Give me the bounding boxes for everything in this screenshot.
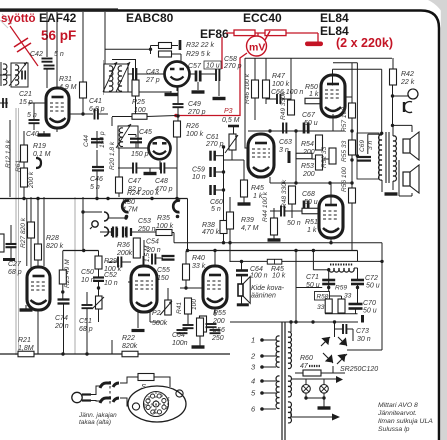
junction x296 top [294,249,297,252]
capacitor C65b [210,330,221,333]
svg-text:C70: C70 [363,300,376,307]
svg-text:2: 2 [152,409,156,415]
junction choke left [327,268,330,271]
svg-text:1: 1 [167,397,170,403]
label R60 [300,355,313,362]
tube EL84 upper [321,75,345,117]
junction OT top [380,132,383,135]
wire C48 right [165,167,178,169]
wire C74 down [63,304,65,354]
label R49 [280,91,287,120]
label R26 [186,123,199,130]
junction bus197 c [95,197,98,200]
junction bridge feed [311,320,314,323]
wire C42 down [46,69,48,88]
wire psu bottoms [325,313,358,315]
junction det [149,48,152,51]
wire R26 down [176,137,178,197]
junction psu [380,260,383,263]
wire pot down [98,309,100,322]
wire det cath [176,86,178,91]
red ground bar [305,42,323,47]
svg-text:(2 x 220k): (2 x 220k) [336,36,393,50]
wire bridge top [334,322,336,337]
label SR250C120 [340,366,378,373]
socket pin number 2 [152,409,156,415]
wire C73 corner [352,329,354,341]
tube ECC40 [248,134,274,177]
wire R46 up [254,58,256,80]
coil T3 [119,128,123,147]
junction h131 a [268,129,271,132]
wire psu left link [296,287,322,289]
label C49 [188,101,201,108]
label C27 value [8,269,22,276]
svg-text:68 p: 68 p [79,326,93,333]
label EL84 second [320,24,349,38]
switch contact upper [100,383,119,388]
svg-text:C48: C48 [155,178,168,185]
R60 hatch [309,365,321,367]
junction y250 d [213,249,216,252]
ground R44 [268,238,281,241]
junction bus197 f [175,197,178,200]
resistor R23 [59,270,66,284]
label R38 value [202,229,220,236]
junction bottom rail b [85,352,88,355]
junction bottom rail [61,352,64,355]
tube EAF42 [46,88,69,128]
svg-text:R27 820 k: R27 820 k [20,217,27,248]
boxed label 10u [204,61,221,69]
wire C54 right [156,257,164,259]
label P2 [152,310,161,317]
label C58 [224,56,237,63]
label C53 [138,218,151,225]
wire PT terminal 3 [262,366,276,368]
switch link dashed [109,381,111,404]
wire C47 left [118,167,133,169]
potentiometer tone [92,296,104,309]
wire y250 left corner [98,251,100,257]
junction lamp2 [322,396,325,399]
OT core [386,132,389,183]
label R27 [20,217,27,248]
bridge diode 3 [338,337,347,346]
wire P1 vert [142,256,144,266]
coil T2 secondary [118,66,122,91]
wire caps col right3 [215,189,224,191]
label R45 value [253,193,263,200]
wire C66 right [281,98,292,100]
red wire mV tap [257,33,259,36]
label P2 value [152,320,168,327]
svg-text:820k: 820k [122,343,138,350]
wire R31 bottom [82,98,84,114]
svg-text:10 n: 10 n [104,280,118,287]
wire jack [393,95,409,97]
IF transformer T3 box [118,126,138,148]
svg-text:C59: C59 [192,167,205,174]
svg-text:4,7 M: 4,7 M [241,225,259,232]
svg-text:6,8 p: 6,8 p [89,106,105,113]
label R12 [5,139,12,168]
svg-text:ECC40: ECC40 [243,11,282,25]
wire PT terminal 6 [262,408,276,410]
label R50 value [309,91,319,98]
C69 box [357,133,379,179]
resistor R26 [174,121,181,137]
junction bus197 e [150,197,153,200]
wire R51 right [319,210,321,212]
label PT terminal 2 [250,352,256,361]
label EL84 first [320,11,349,25]
label C73 value [357,336,371,343]
resistor R56 [349,188,356,203]
svg-text:C73: C73 [356,328,369,335]
tube EF86 [131,266,157,312]
wire lamp1 up [305,379,307,385]
wire EAF42 plate out [69,113,93,115]
label R47 value [272,81,290,88]
svg-text:EL84: EL84 [320,11,349,25]
label C57 value [206,63,220,70]
capacitor bar top [179,40,182,50]
wire C57-C58 [200,73,216,75]
svg-text:Ilman sulkuja ULA: Ilman sulkuja ULA [378,418,433,425]
label C52 value [104,280,118,287]
label R61 value [28,171,35,189]
label R45b value [272,273,286,280]
svg-text:50 u: 50 u [363,308,377,315]
bridge diode 2 [323,353,333,363]
label C60 value [211,206,221,213]
wire C65 r [285,210,303,212]
red label 56 pF [41,28,76,43]
svg-text:Mittari AVO 8: Mittari AVO 8 [378,402,418,409]
PT core [282,322,285,440]
svg-text:0,1 M: 0,1 M [33,151,51,158]
svg-text:R60: R60 [300,355,313,362]
resistor R29 [159,51,172,57]
wire R23 down [62,284,64,299]
capacitor C40 [29,120,40,123]
wire R39 down [229,229,231,243]
arrowhead lamp rail [336,376,343,383]
junction bridge top [333,320,336,323]
label R28 value [46,243,64,250]
wire EL84u cath [332,114,334,131]
red mV text [249,42,265,54]
svg-text:47: 47 [300,363,309,370]
capacitor C41 [95,109,98,120]
mains plug [72,392,91,402]
capacitor C62 [183,325,194,328]
phone jack lower [404,102,412,113]
wire lamp2 dn [323,393,325,398]
wire R49 up [290,58,292,100]
ground C58 [213,97,226,100]
svg-text:5 n: 5 n [90,184,100,191]
wire R25 left [112,116,132,118]
ground EAF42 cathode [38,133,51,136]
red wire top measurement rail [226,32,318,34]
resistor R25 [132,114,147,120]
capacitor C42b [44,66,55,69]
wire R27 down [30,238,32,268]
coil clip right dot [176,215,180,219]
wire det left vert [150,46,152,55]
label C48 value [155,186,173,193]
pot P2 arrow [160,301,172,315]
ground lamps [318,406,331,409]
potentiometer P2 [165,300,172,315]
wire PT terminal 1 [262,339,276,341]
wire C46 col [96,150,98,166]
tube output driver [203,266,227,308]
wire psu left vert [295,251,297,323]
capacitor C66 [277,94,280,104]
wire R38 down [223,234,225,243]
svg-text:2: 2 [250,352,256,361]
svg-text:200k: 200k [116,250,133,257]
ground C27 [3,258,15,261]
wire P3 dn [231,150,233,160]
wire caps col right [215,155,224,157]
resistor left edge [0,234,4,252]
svg-text:50 u: 50 u [366,283,380,290]
wire caps col right2 [215,171,224,173]
choke core hatch [330,264,353,266]
label R55 [341,140,348,162]
potentiometer P3 [225,134,238,153]
capacitor C67 [304,123,308,134]
junction osc r [124,216,127,219]
red label syotto [1,13,36,25]
svg-text:C53: C53 [138,218,151,225]
terminal dot 3 [260,365,264,369]
svg-text:C54: C54 [146,239,159,246]
ground R45 [238,202,251,205]
wire gnd stub triode [149,168,151,173]
wire bridge feed [230,321,358,323]
wire R46 down [254,98,256,120]
svg-text:C58: C58 [224,56,237,63]
coil clip left [122,201,129,213]
capacitor C68 [304,201,308,212]
svg-text:syöttö: syöttö [1,13,36,25]
label C74 value [54,323,69,330]
capacitor C45 [130,139,142,143]
arrow T3 [116,124,131,148]
svg-text:820 k: 820 k [46,243,64,250]
label C47 value [128,186,142,193]
label C55 [157,267,170,274]
capacitor C61 [211,151,215,161]
resistor R28 [35,244,42,260]
wire lamps gnd [323,398,325,407]
wire C57 down [197,82,199,90]
wire P3 up [233,127,235,134]
svg-text:R48 330k: R48 330k [281,179,288,208]
capacitor C46 [92,167,104,170]
svg-text:takaa (alta): takaa (alta) [79,419,111,426]
label R35 [157,215,170,222]
resistor R61 [21,168,28,187]
label C56 [212,327,225,334]
wire PT terminal 4 [262,380,276,382]
capacitor C58 [216,69,219,81]
junction col a [350,129,353,132]
wire antenna core [0,62,2,86]
label R42 [401,71,414,78]
wire left col [9,120,11,197]
svg-text:R45: R45 [251,185,264,192]
wire R29b down [98,269,100,277]
label C44 [83,135,90,147]
capacitor C50 body [93,278,104,281]
wire spk low v [411,193,413,196]
label R61 [15,160,22,172]
label C41 [89,98,102,105]
label R56 [341,167,348,192]
svg-text:R59: R59 [335,285,347,292]
wire ps h350 [347,349,382,351]
ground driver [192,345,205,348]
label R24 [127,190,159,197]
resistor R54 [316,135,323,150]
wire PT bottom arrow [291,416,332,418]
oscillator coil arcs [104,212,109,236]
svg-text:4: 4 [251,377,255,386]
label C64 value [250,273,268,280]
wire grid vert left [26,199,28,266]
svg-text:100 k: 100 k [272,81,290,88]
wire R40 down [185,280,187,288]
label R36b [117,242,130,249]
svg-text:50 u: 50 u [304,199,318,206]
junction y250 c [186,249,189,252]
svg-text:R56 100: R56 100 [341,167,348,192]
svg-text:R19: R19 [33,143,46,150]
label C27 [8,261,22,268]
label C73 [356,328,369,335]
wire OT sec bot [392,181,394,190]
resistor R45 two-segment [267,259,282,264]
svg-text:R29 5 k: R29 5 k [186,51,211,58]
wire OT sec top [392,125,394,136]
bridge diode 4 [337,354,347,364]
svg-text:R40: R40 [192,255,205,262]
label C70 [363,300,376,307]
wire R58 bot [328,312,330,315]
terminal dot 6 [260,407,264,411]
wire R40 up [185,251,187,264]
dial lamp 1 [302,385,311,394]
bus wire y250 left [63,250,99,252]
junction R39 y242 [228,241,231,244]
label PT terminal 1 [251,336,255,345]
terminal dot 2 [260,354,264,358]
svg-text:EABC80: EABC80 [126,11,174,25]
label jann line2 [79,419,111,426]
red junction dot [174,114,178,118]
svg-text:500k: 500k [152,320,168,327]
junction choke feed [312,249,315,252]
svg-text:33 k: 33 k [192,263,206,270]
socket ear left [132,403,139,410]
tube EABC80 output triode [27,267,50,310]
svg-text:R51: R51 [305,219,318,226]
wire r51b [312,158,329,160]
wire plate det down [177,87,179,103]
svg-text:EF86: EF86 [200,27,229,41]
wire R25 right [147,116,176,117]
wire EL84u screen [345,96,352,98]
wire C46 dn [96,171,98,197]
label C72 value [366,283,380,290]
label R25 [132,99,145,106]
wire lamps bottom [306,397,324,399]
socket crosshair [143,392,169,416]
label C63 [279,139,292,146]
wire R35 corner [173,233,175,243]
wire R42 down [392,85,394,125]
junction caps top [222,145,225,148]
label C43 [146,69,159,76]
wire ECC40 grid [245,104,248,148]
resistor R32 [159,43,172,49]
wire box left vert [244,58,246,104]
ground crystal speaker [237,303,249,306]
svg-text:P3: P3 [224,108,233,115]
label R30 value [122,207,138,214]
socket pin number 6 [144,404,147,410]
wire R45 dn [243,197,245,203]
label C67 [302,112,316,119]
ground between C47 C48 [144,172,157,175]
label R30 [122,199,135,206]
wire C64 up [241,262,243,271]
capacitor C71 [322,280,335,284]
label C43 value [145,77,160,84]
label C66 [271,89,303,96]
wire y250 corner [357,251,359,262]
svg-text:C66 100 n: C66 100 n [271,89,303,96]
label R29b value [104,266,122,273]
resistor R44 [271,218,278,235]
svg-text:R52 33: R52 33 [321,146,328,168]
label R23 [64,259,71,288]
wire R29 down to tube [180,54,182,63]
label R21 [18,337,31,344]
svg-text:R28: R28 [46,235,59,242]
wire R61 down [23,187,25,197]
svg-text:100: 100 [191,299,198,310]
wire R22 area [111,340,113,354]
label EF86 [200,27,229,41]
red leader line to C42 [10,26,38,66]
label C53 value [137,226,156,233]
coil clip left dot [125,215,129,219]
label C59 value [192,174,206,181]
wire EL84l top [330,183,332,206]
junction caps c59 [222,170,225,173]
junction caps c60 [222,188,225,191]
svg-text:R57 100: R57 100 [341,107,348,132]
label C58 value [223,63,242,70]
svg-text:10 n: 10 n [192,174,206,181]
